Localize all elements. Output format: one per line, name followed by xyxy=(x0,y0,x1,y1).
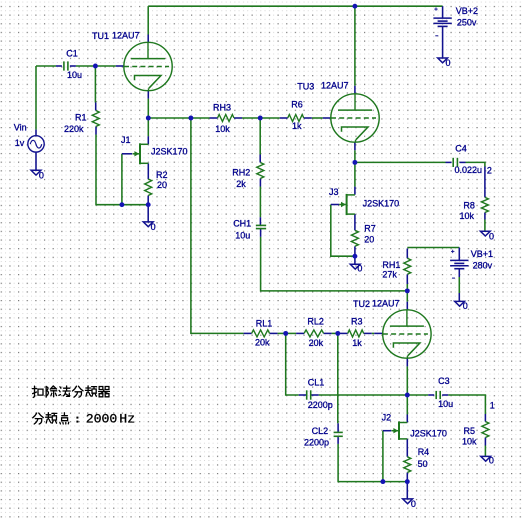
svg-text:R6: R6 xyxy=(291,99,303,109)
svg-text:Hz: Hz xyxy=(119,411,135,426)
svg-text:2: 2 xyxy=(487,166,492,176)
svg-text:CL2: CL2 xyxy=(312,426,329,436)
svg-text:R8: R8 xyxy=(463,200,475,210)
svg-text:TU3: TU3 xyxy=(297,82,314,92)
svg-text:280v: 280v xyxy=(473,261,493,271)
svg-text:CL1: CL1 xyxy=(308,378,325,388)
svg-text:RL1: RL1 xyxy=(256,319,273,329)
svg-text:27k: 27k xyxy=(382,270,397,280)
svg-text:20: 20 xyxy=(157,180,167,190)
svg-text:R5: R5 xyxy=(464,426,476,436)
svg-text:10u: 10u xyxy=(235,230,250,240)
svg-text:50: 50 xyxy=(418,459,428,469)
svg-text:CH1: CH1 xyxy=(233,218,251,228)
svg-text:0: 0 xyxy=(489,455,494,465)
svg-text:2000: 2000 xyxy=(86,411,118,426)
svg-text:C4: C4 xyxy=(455,144,467,154)
svg-text:10u: 10u xyxy=(67,70,82,80)
svg-text:C3: C3 xyxy=(438,376,450,386)
svg-text:2200p: 2200p xyxy=(308,400,333,410)
svg-text:12AU7: 12AU7 xyxy=(321,80,349,90)
svg-text:J2: J2 xyxy=(382,413,392,423)
svg-text:J2SK170: J2SK170 xyxy=(410,428,447,438)
svg-text:20k: 20k xyxy=(309,338,324,348)
svg-text:0: 0 xyxy=(357,263,362,273)
svg-text:TU1: TU1 xyxy=(92,31,109,41)
svg-text:0: 0 xyxy=(151,222,156,232)
svg-text:0: 0 xyxy=(463,301,468,311)
svg-text:RH1: RH1 xyxy=(382,260,400,270)
svg-text:R1: R1 xyxy=(75,113,87,123)
svg-text:1k: 1k xyxy=(292,121,302,131)
svg-text:TU2: TU2 xyxy=(353,299,370,309)
svg-text:J2SK170: J2SK170 xyxy=(363,199,400,209)
svg-text:10k: 10k xyxy=(462,437,477,447)
svg-text:C1: C1 xyxy=(66,49,78,59)
svg-text:R3: R3 xyxy=(351,317,363,327)
svg-text:20: 20 xyxy=(364,235,374,245)
svg-text:2k: 2k xyxy=(236,179,246,189)
svg-text:2200p: 2200p xyxy=(304,437,329,447)
svg-text:10k: 10k xyxy=(215,124,230,134)
svg-text:R7: R7 xyxy=(364,223,376,233)
svg-text:12AU7: 12AU7 xyxy=(112,31,140,41)
svg-text:0: 0 xyxy=(411,499,416,509)
svg-text:0: 0 xyxy=(489,232,494,242)
svg-text:RL2: RL2 xyxy=(307,317,324,327)
svg-text:Vin: Vin xyxy=(14,123,27,133)
svg-text:J1: J1 xyxy=(121,135,131,145)
svg-text:220k: 220k xyxy=(64,124,84,134)
svg-text:0.022u: 0.022u xyxy=(455,165,483,175)
svg-text:RH3: RH3 xyxy=(213,103,231,113)
svg-text:250v: 250v xyxy=(457,18,477,28)
svg-text:VB+1: VB+1 xyxy=(471,249,493,259)
svg-text:J3: J3 xyxy=(329,187,339,197)
svg-text:J2SK170: J2SK170 xyxy=(151,147,188,157)
svg-text:VB+2: VB+2 xyxy=(456,6,478,16)
svg-text:RH2: RH2 xyxy=(232,168,250,178)
svg-text:12AU7: 12AU7 xyxy=(372,298,400,308)
svg-text:1k: 1k xyxy=(352,338,362,348)
svg-text:R2: R2 xyxy=(156,170,168,180)
svg-text:0: 0 xyxy=(39,170,44,180)
svg-text:1: 1 xyxy=(490,400,495,410)
svg-text:1v: 1v xyxy=(15,138,25,148)
svg-text:10k: 10k xyxy=(460,211,475,221)
svg-text:0: 0 xyxy=(446,58,451,68)
svg-text:R4: R4 xyxy=(418,447,430,457)
svg-text:10u: 10u xyxy=(438,399,453,409)
svg-text:20k: 20k xyxy=(255,338,270,348)
